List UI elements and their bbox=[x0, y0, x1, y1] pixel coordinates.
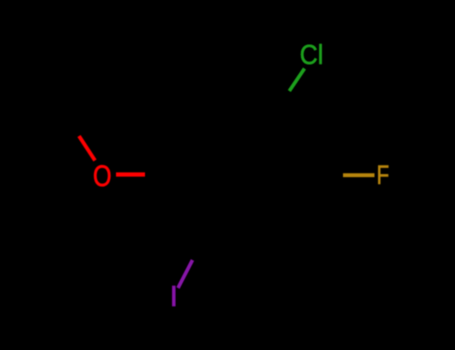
wire: O-C1 ring bond (red half near O) bbox=[116, 172, 145, 176]
wire: CH3-O bond of methoxy group (red half near O) bbox=[79, 136, 95, 161]
svg-text:O: O bbox=[93, 160, 112, 193]
svg-text:I: I bbox=[170, 281, 178, 313]
svg-text:F: F bbox=[377, 160, 390, 190]
wire: C5-F bond (gold half near F) bbox=[343, 173, 375, 177]
wire: C2-I bond (purple half near I) bbox=[178, 260, 193, 288]
wire: C4-Cl bond (green half near Cl) bbox=[289, 69, 304, 92]
svg-text:Cl: Cl bbox=[300, 39, 324, 70]
